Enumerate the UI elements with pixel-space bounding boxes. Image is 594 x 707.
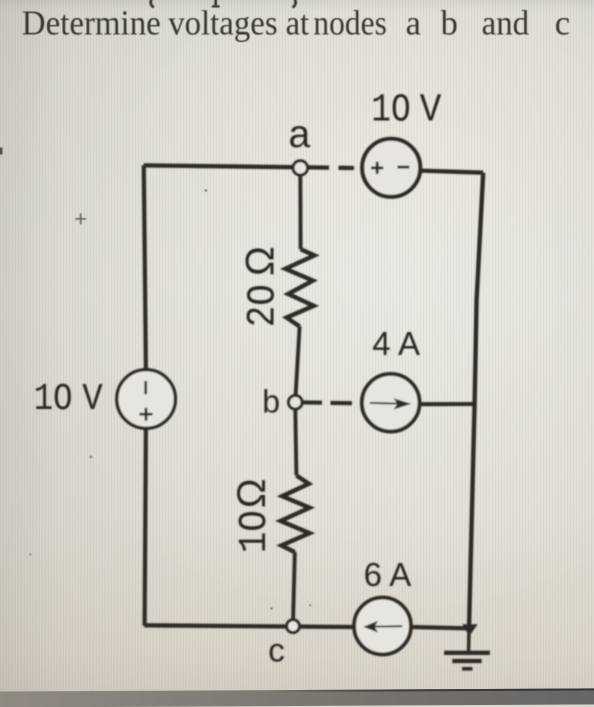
svg-text:voltages: voltages [168, 4, 278, 42]
svg-text:V: V [82, 377, 103, 420]
svg-text:4 A: 4 A [372, 325, 420, 362]
svg-text:1O: 1O [232, 510, 277, 553]
svg-text:6 A: 6 A [364, 556, 412, 593]
svg-text:2O: 2O [241, 284, 286, 327]
svg-text:c: c [555, 4, 570, 42]
svg-text:b: b [441, 4, 458, 42]
svg-text:nodes: nodes [313, 4, 387, 42]
svg-text:and: and [482, 4, 529, 42]
svg-text:Ω: Ω [230, 478, 274, 508]
svg-text:b: b [262, 383, 280, 419]
svg-text:a: a [406, 4, 421, 42]
svg-text:Determine: Determine [22, 4, 161, 42]
svg-text:Ω: Ω [239, 246, 283, 276]
svg-text:at: at [286, 4, 310, 42]
svg-text:a: a [289, 113, 311, 156]
svg-text:1O: 1O [371, 87, 410, 132]
svg-text:1O: 1O [34, 378, 73, 421]
svg-text:c: c [268, 632, 285, 669]
svg-text:V: V [420, 88, 442, 133]
